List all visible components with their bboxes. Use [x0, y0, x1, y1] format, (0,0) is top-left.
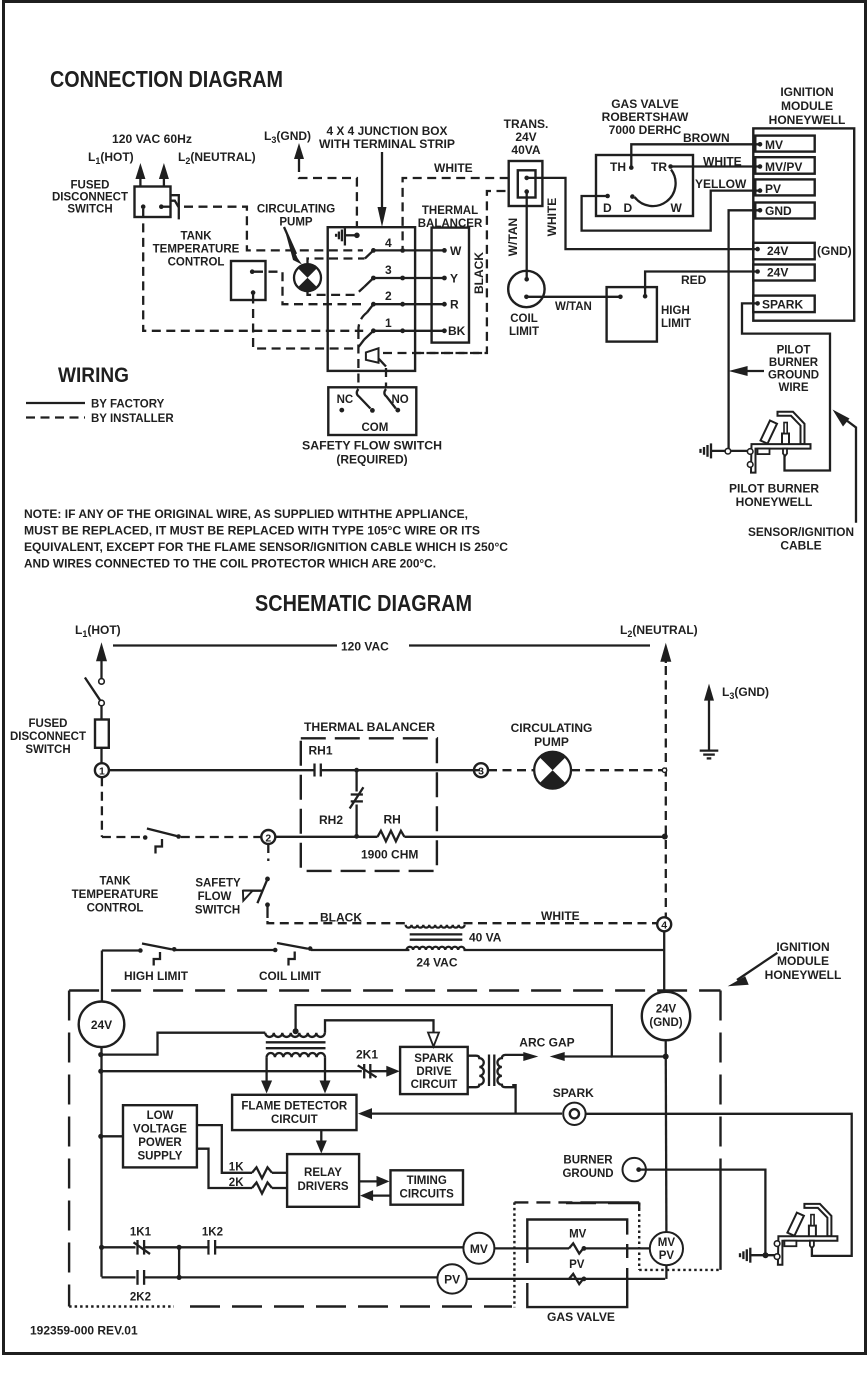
svg-text:RH: RH — [384, 813, 401, 827]
label SAFETY FLOW SWITCH (schematic) — [195, 878, 241, 917]
wire dashed: L3 to junction box ground — [299, 163, 357, 227]
terminal MV — [755, 136, 814, 152]
L3 arrow and earth ground — [700, 684, 719, 759]
svg-text:RH2: RH2 — [319, 813, 343, 827]
relay drivers box — [287, 1154, 359, 1207]
svg-text:TANK: TANK — [99, 876, 131, 888]
blade terminal 2 with dashed tail to flow switch — [358, 304, 373, 387]
timing circuits box — [391, 1170, 464, 1204]
label SAFETY FLOW SWITCH (REQUIRED) — [302, 439, 442, 467]
svg-text:GAS VALVE: GAS VALVE — [547, 1310, 615, 1324]
spark line to pilot electrode — [586, 1114, 852, 1256]
svg-text:BROWN: BROWN — [683, 131, 730, 145]
secondary arrows into flame detector — [261, 1057, 330, 1093]
PV circle — [437, 1264, 466, 1293]
L2 arrow with dashed stem — [660, 643, 671, 918]
L1 arrow — [96, 642, 107, 678]
svg-text:THERMAL BALANCER: THERMAL BALANCER — [304, 720, 435, 734]
svg-text:HIGH: HIGH — [661, 305, 690, 317]
svg-text:(REQUIRED): (REQUIRED) — [336, 453, 407, 467]
svg-text:BK: BK — [448, 324, 466, 338]
svg-text:CONTROL: CONTROL — [87, 903, 144, 915]
vertical branch RH2 — [354, 768, 359, 839]
svg-text:4: 4 — [385, 236, 392, 250]
svg-text:BURNER: BURNER — [563, 1155, 613, 1167]
flow paddle symbol inside junction box — [366, 348, 386, 366]
blade terminal 4 — [365, 250, 374, 258]
svg-text:COIL LIMIT: COIL LIMIT — [259, 971, 321, 983]
node 2 — [261, 830, 275, 844]
svg-text:CIRCULATING: CIRCULATING — [511, 721, 593, 735]
NOTE text block — [24, 507, 508, 571]
svg-text:RELAY: RELAY — [304, 1167, 342, 1179]
svg-text:IGNITION: IGNITION — [780, 85, 833, 99]
spark electrode symbol — [563, 1103, 585, 1125]
svg-text:1: 1 — [385, 316, 392, 330]
svg-text:DRIVERS: DRIVERS — [297, 1181, 348, 1193]
gas valve inner bracket box — [527, 1220, 627, 1308]
svg-text:L1(HOT): L1(HOT) — [88, 150, 134, 166]
24V(GND) circle — [642, 992, 690, 1040]
wire dashed: tank control upper dot to terminal 2 — [254, 272, 363, 305]
svg-text:MODULE: MODULE — [777, 954, 829, 968]
wire WHITE dashed to node 4 — [464, 909, 658, 923]
label IGNITION MODULE HONEYWELL (connection) — [769, 85, 846, 127]
flow switch NC blade — [357, 389, 371, 409]
svg-text:CONNECTION DIAGRAM: CONNECTION DIAGRAM — [50, 66, 283, 92]
svg-text:NO: NO — [392, 394, 409, 406]
svg-text:LIMIT: LIMIT — [509, 326, 539, 338]
high limit switch (schematic) — [102, 944, 177, 966]
svg-text:2K2: 2K2 — [130, 1292, 151, 1304]
spark transformer primary (schematic) — [265, 1028, 325, 1057]
svg-text:4: 4 — [661, 920, 667, 932]
svg-text:GND: GND — [765, 204, 792, 218]
svg-text:CONTROL: CONTROL — [168, 257, 225, 269]
transformer 40VA (schematic) — [406, 925, 465, 950]
wire dashed: tank control lower dot to blade 1 — [253, 295, 356, 349]
svg-text:TR: TR — [651, 160, 667, 174]
label HIGH LIMIT — [661, 305, 691, 330]
node 1 — [95, 763, 109, 777]
svg-text:WHITE: WHITE — [541, 909, 580, 923]
svg-text:192359-000 REV.01: 192359-000 REV.01 — [30, 1324, 138, 1338]
svg-text:GROUND: GROUND — [768, 370, 819, 382]
fused disconnect switch (schematic) — [85, 678, 109, 764]
arrow relay to timing — [359, 1176, 389, 1187]
svg-text:HONEYWELL: HONEYWELL — [769, 113, 846, 127]
wire MV to gas valve — [494, 1247, 569, 1249]
wire node1 down dashed — [101, 777, 103, 837]
gas valve selector arc — [635, 170, 676, 207]
label PILOT BURNER HONEYWELL — [729, 482, 819, 510]
svg-text:PILOT BURNER: PILOT BURNER — [729, 482, 819, 496]
svg-text:YELLOW: YELLOW — [695, 177, 747, 191]
contact 2K2 — [102, 1270, 438, 1304]
svg-text:AND WIRES CONNECTED TO THE COI: AND WIRES CONNECTED TO THE COIL PROTECTO… — [24, 557, 436, 571]
ground symbol inside junction box — [336, 228, 360, 245]
svg-text:L1(HOT): L1(HOT) — [75, 623, 121, 639]
wire 24V to 2K1 and spark drive — [102, 1048, 400, 1079]
svg-text:1: 1 — [99, 766, 105, 778]
svg-text:120 VAC 60Hz: 120 VAC 60Hz — [112, 132, 192, 146]
wire PV to gas valve — [467, 1278, 665, 1280]
svg-text:W: W — [450, 244, 462, 258]
terminal 1 line — [371, 316, 447, 333]
svg-text:HIGH LIMIT: HIGH LIMIT — [124, 971, 188, 983]
svg-text:RED: RED — [681, 273, 707, 287]
svg-text:HONEYWELL: HONEYWELL — [765, 968, 842, 982]
svg-text:2: 2 — [385, 289, 392, 303]
svg-text:TANK: TANK — [180, 231, 212, 243]
leader arrow from junction box label — [378, 152, 387, 227]
fuse symbol on disconnect switch — [170, 195, 179, 219]
svg-text:1K1: 1K1 — [130, 1227, 152, 1239]
svg-text:MODULE: MODULE — [781, 99, 833, 113]
svg-text:COM: COM — [362, 422, 389, 434]
svg-text:CABLE: CABLE — [780, 539, 821, 553]
wire BROWN: TH to MV — [631, 131, 758, 168]
wire 24V(GND) down rail — [665, 1040, 668, 1232]
svg-text:1900 CHM: 1900 CHM — [361, 848, 418, 862]
svg-text:NC: NC — [337, 394, 354, 406]
high limit box — [607, 287, 657, 342]
wire dashed: disconnect bottom to terminal 1 — [143, 209, 363, 331]
left rail below 24V — [98, 1047, 104, 1277]
wire YELLOW: D to PV — [582, 177, 759, 231]
MV/PV circle — [650, 1232, 683, 1265]
svg-text:L2(NEUTRAL): L2(NEUTRAL) — [620, 623, 698, 639]
svg-text:GAS VALVE: GAS VALVE — [611, 97, 679, 111]
svg-text:WITH TERMINAL STRIP: WITH TERMINAL STRIP — [319, 137, 455, 151]
label FUSED DISCONNECT SWITCH (schematic) — [10, 718, 86, 756]
label FUSED DISCONNECT SWITCH — [52, 180, 128, 216]
wire node2 line with resistor RH — [275, 831, 668, 842]
svg-text:L3(GND): L3(GND) — [722, 685, 769, 701]
svg-text:24V: 24V — [767, 244, 788, 258]
wire RED: high limit to 24V — [645, 272, 758, 297]
svg-text:24V: 24V — [656, 1004, 677, 1016]
svg-text:FUSED: FUSED — [29, 718, 68, 730]
label 4 X 4 JUNCTION BOX WITH TERMINAL STRIP — [319, 124, 455, 151]
fused disconnect switch box — [135, 187, 171, 218]
svg-text:24V: 24V — [767, 266, 788, 280]
thermal balancer (connection) label — [418, 205, 483, 230]
leader arrow from pump label — [284, 227, 302, 265]
svg-text:MV: MV — [658, 1237, 676, 1249]
svg-text:MUST BE REPLACED, IT MUST BE R: MUST BE REPLACED, IT MUST BE REPLACED WI… — [24, 524, 480, 538]
wire dashed: disconnect to junction terminal 4 (by installer) — [161, 206, 170, 208]
label COIL LIMIT — [509, 313, 539, 338]
svg-text:FLOW: FLOW — [198, 891, 232, 903]
wire dashed: pump bottom to blade 3 — [308, 287, 365, 295]
svg-text:24 VAC: 24 VAC — [416, 956, 457, 970]
svg-text:W: W — [671, 201, 683, 215]
junction box — [328, 227, 415, 371]
svg-text:SWITCH: SWITCH — [195, 905, 240, 917]
svg-text:2K: 2K — [229, 1177, 244, 1189]
svg-text:POWER: POWER — [138, 1137, 182, 1149]
blade terminal 1 with dashed tail — [357, 331, 373, 349]
svg-text:TRANS.: TRANS. — [504, 117, 549, 131]
terminal PV — [755, 179, 814, 196]
gas valve outer dashed box — [514, 1202, 639, 1307]
arrow timing to relay — [360, 1190, 390, 1201]
terminal MV/PV — [755, 157, 814, 174]
label CIRCULATING PUMP (schematic) — [511, 721, 593, 749]
wire GND terminal down to pilot ground — [729, 210, 760, 449]
label GAS VALVE ROBERTSHAW 7000 DERHC — [602, 97, 689, 137]
terminal 3 line — [371, 263, 447, 280]
capacitor RH2 (variable) — [350, 787, 364, 808]
transformer TRANS box — [509, 161, 543, 206]
terminal GND — [755, 203, 814, 219]
svg-text:W/TAN: W/TAN — [506, 218, 520, 256]
svg-text:RH1: RH1 — [309, 744, 333, 758]
contact 1K1 — [102, 1227, 478, 1255]
safety flow switch (schematic) — [243, 844, 270, 921]
wire SPARK terminal to sensor cable down right side — [742, 303, 830, 470]
safety flow switch box — [328, 387, 416, 435]
wire 24VAC secondary line — [311, 949, 664, 951]
label CIRCULATING PUMP — [257, 204, 335, 229]
dashed outline right of thermal balancer (white wire path) — [415, 352, 487, 354]
svg-text:SCHEMATIC DIAGRAM: SCHEMATIC DIAGRAM — [255, 590, 472, 616]
contact 1K2 — [202, 1227, 223, 1255]
vertical 1K1-2K2 link — [178, 1247, 180, 1277]
wire node1 to RH1 — [109, 769, 314, 771]
svg-text:GROUND: GROUND — [562, 1168, 613, 1180]
svg-text:CIRCUITS: CIRCUITS — [400, 1189, 455, 1201]
svg-text:IGNITION: IGNITION — [776, 940, 829, 954]
svg-text:SPARK: SPARK — [414, 1053, 454, 1065]
svg-text:CIRCULATING: CIRCULATING — [257, 204, 335, 216]
label SENSOR/IGNITION CABLE with arrow — [748, 410, 856, 553]
svg-text:WHITE: WHITE — [434, 161, 473, 175]
wire LV supply to 2K — [197, 1149, 252, 1188]
svg-text:SENSOR/IGNITION: SENSOR/IGNITION — [748, 525, 854, 539]
blade terminal 3 — [364, 278, 373, 287]
svg-text:ARC GAP: ARC GAP — [519, 1036, 574, 1050]
svg-text:THERMAL: THERMAL — [422, 205, 478, 217]
wire node4 down to 24V(GND) — [663, 931, 665, 991]
flame detector circuit box — [232, 1095, 356, 1130]
svg-text:2: 2 — [265, 832, 271, 844]
legend dashed sample BY INSTALLER — [26, 413, 174, 425]
wire BLACK dashed to transformer — [268, 911, 407, 925]
svg-text:SPARK: SPARK — [553, 1086, 594, 1100]
tank temperature control switch (schematic) — [102, 829, 261, 854]
svg-text:TEMPERATURE: TEMPERATURE — [72, 889, 159, 901]
svg-text:DISCONNECT: DISCONNECT — [52, 192, 128, 204]
svg-text:BY INSTALLER: BY INSTALLER — [91, 413, 174, 425]
label TANK TEMPERATURE CONTROL — [153, 231, 240, 269]
wire dashed NO line to flow switch — [385, 368, 387, 387]
ignition module box — [753, 128, 854, 320]
flame detector down arrow to relay drivers — [316, 1130, 327, 1153]
wire dashed: pump top to blade 4 — [308, 259, 365, 267]
svg-text:VOLTAGE: VOLTAGE — [133, 1124, 187, 1136]
low voltage power supply box — [123, 1105, 197, 1167]
svg-text:PV: PV — [444, 1273, 460, 1287]
svg-text:SPARK: SPARK — [762, 298, 803, 312]
contact MV (gas valve) — [569, 1229, 650, 1254]
node 4 — [657, 917, 671, 931]
svg-text:24V: 24V — [91, 1018, 112, 1032]
svg-text:D: D — [624, 201, 633, 215]
tank temperature control box — [231, 261, 266, 300]
svg-text:(GND): (GND) — [817, 244, 852, 258]
label TANK TEMPERATURE CONTROL (schematic) — [72, 876, 159, 915]
wire MV/PV bottom to PV line — [665, 1265, 667, 1279]
label IGNITION MODULE HONEYWELL (schematic) with arrow — [728, 940, 842, 986]
svg-text:BLACK: BLACK — [472, 252, 486, 294]
svg-text:TH: TH — [610, 160, 626, 174]
svg-text:BY FACTORY: BY FACTORY — [91, 399, 165, 411]
svg-text:WIRING: WIRING — [58, 364, 129, 387]
label TRANS. 24V 40VA — [504, 117, 549, 157]
node 3 — [474, 763, 488, 777]
svg-text:MV: MV — [569, 1229, 587, 1241]
wire 24V rail to LV supply — [102, 1135, 124, 1137]
svg-text:24V: 24V — [515, 130, 536, 144]
120 VAC line with label — [113, 640, 650, 654]
svg-text:COIL: COIL — [510, 313, 537, 325]
wire pump to L2 dashed — [571, 769, 662, 771]
terminal 4 line — [371, 236, 447, 253]
pilot burner icon (schematic) — [774, 1204, 837, 1265]
svg-text:DRIVE: DRIVE — [416, 1066, 451, 1078]
flow switch NO blade — [384, 389, 395, 409]
svg-text:Y: Y — [450, 272, 458, 286]
svg-text:SAFETY FLOW SWITCH: SAFETY FLOW SWITCH — [302, 439, 442, 453]
burner ground circle — [623, 1158, 646, 1181]
ground symbol (pilot burner, connection) — [701, 443, 749, 458]
L3 ground arrow — [294, 143, 304, 159]
svg-text:WHITE: WHITE — [545, 198, 559, 237]
circulating pump (schematic) — [534, 752, 571, 789]
ground symbol (pilot burner, schematic) — [740, 1248, 776, 1263]
ignition module dashed outline (schematic) — [69, 991, 720, 1307]
svg-text:R: R — [450, 298, 459, 312]
svg-text:SUPPLY: SUPPLY — [138, 1151, 183, 1163]
svg-text:BURNER: BURNER — [769, 357, 819, 369]
arc gap electrodes — [523, 1052, 612, 1061]
svg-text:PILOT: PILOT — [777, 345, 811, 357]
svg-text:FLAME DETECTOR: FLAME DETECTOR — [241, 1101, 348, 1113]
24V circle — [79, 1002, 125, 1048]
pilot burner icon (connection diagram) — [747, 412, 810, 473]
svg-text:TIMING: TIMING — [407, 1175, 447, 1187]
svg-text:(GND): (GND) — [649, 1017, 682, 1029]
wire WHITE: trans to 24V(GND) terminal — [527, 178, 756, 249]
spark drive circuit box — [400, 1047, 468, 1094]
svg-text:PUMP: PUMP — [534, 735, 569, 749]
svg-text:EQUIVALENT, EXCEPT FOR THE FLA: EQUIVALENT, EXCEPT FOR THE FLAME SENSOR/… — [24, 540, 508, 554]
svg-text:WIRE: WIRE — [778, 382, 808, 394]
svg-text:PV: PV — [765, 182, 781, 196]
wire node3 to pump dashed — [488, 769, 534, 771]
svg-text:TEMPERATURE: TEMPERATURE — [153, 244, 240, 256]
svg-text:PV: PV — [569, 1259, 585, 1271]
arrow to ground wire — [729, 366, 764, 376]
capacitor RH1 — [315, 764, 481, 777]
wire L1 arrow into disconnect switch — [135, 163, 145, 187]
svg-text:120 VAC: 120 VAC — [341, 640, 389, 654]
spark sense line — [370, 1085, 562, 1113]
terminal 24V (GND) — [753, 243, 851, 259]
svg-text:W/TAN: W/TAN — [555, 301, 592, 313]
wire primary top to 24V(GND) rail — [296, 1005, 663, 1056]
svg-text:1K: 1K — [229, 1162, 244, 1174]
terminal SPARK — [753, 296, 814, 313]
gas valve box (connection) — [596, 155, 693, 216]
arrow into flame detector from right — [358, 1108, 372, 1119]
label 1K with jag — [229, 1162, 287, 1179]
svg-text:SAFETY: SAFETY — [195, 878, 241, 890]
legend solid sample BY FACTORY — [26, 399, 165, 411]
svg-text:LOW: LOW — [147, 1110, 174, 1122]
label PILOT BURNER GROUND WIRE — [768, 345, 819, 395]
terminal 24V — [753, 265, 814, 281]
svg-text:1K2: 1K2 — [202, 1227, 223, 1239]
circulating pump symbol — [294, 264, 321, 291]
svg-text:PV: PV — [659, 1250, 675, 1262]
terminal labels W Y R BK — [448, 244, 466, 338]
svg-text:L3(GND): L3(GND) — [264, 129, 311, 145]
svg-text:DISCONNECT: DISCONNECT — [10, 731, 86, 743]
svg-text:3: 3 — [385, 263, 392, 277]
svg-text:SWITCH: SWITCH — [67, 204, 112, 216]
svg-text:2K1: 2K1 — [356, 1048, 378, 1062]
coil limit switch (schematic) — [174, 943, 312, 966]
svg-text:FUSED: FUSED — [71, 180, 110, 192]
svg-text:SWITCH: SWITCH — [25, 744, 70, 756]
svg-text:CIRCUIT: CIRCUIT — [271, 1114, 318, 1126]
contact PV (gas valve) — [569, 1259, 586, 1284]
svg-text:HONEYWELL: HONEYWELL — [736, 495, 813, 509]
wire 24V to spark transformer primary — [102, 1033, 266, 1055]
wire LV supply to 1K — [197, 1125, 252, 1173]
svg-text:MV: MV — [765, 138, 783, 152]
coil limit circle — [508, 271, 544, 307]
terminal 2 line — [371, 289, 447, 307]
svg-text:CIRCUIT: CIRCUIT — [411, 1079, 458, 1091]
svg-text:4 X 4 JUNCTION BOX: 4 X 4 JUNCTION BOX — [327, 124, 448, 138]
svg-text:MV/PV: MV/PV — [765, 160, 802, 174]
svg-text:3: 3 — [478, 766, 484, 778]
wire WHITE: TR to MV/PV — [671, 155, 759, 169]
label BURNER GROUND — [562, 1155, 613, 1181]
svg-text:PUMP: PUMP — [279, 217, 313, 229]
svg-text:40 VA: 40 VA — [469, 931, 502, 945]
wire W/TAN: trans to coil limit — [526, 192, 528, 279]
MV circle — [463, 1233, 494, 1264]
svg-text:NOTE: IF ANY OF THE ORIGINAL W: NOTE: IF ANY OF THE ORIGINAL WIRE, AS SU… — [24, 507, 468, 521]
wire dashed BLACK: paddle to transformer — [383, 191, 509, 353]
svg-text:MV: MV — [470, 1242, 488, 1256]
svg-text:LIMIT: LIMIT — [661, 318, 691, 330]
svg-text:L2(NEUTRAL): L2(NEUTRAL) — [178, 150, 256, 166]
wire burner ground to pilot ground — [639, 1170, 766, 1254]
svg-text:ROBERTSHAW: ROBERTSHAW — [602, 110, 689, 124]
wire pilot electrode to spark line (schematic) — [812, 1249, 841, 1256]
svg-text:7000 DERHC: 7000 DERHC — [609, 123, 682, 137]
svg-text:D: D — [603, 201, 612, 215]
label 2K with jag — [229, 1177, 287, 1194]
wire down to 24V circle — [101, 951, 103, 1002]
hollow arrow into spark drive circuit — [325, 1020, 439, 1046]
